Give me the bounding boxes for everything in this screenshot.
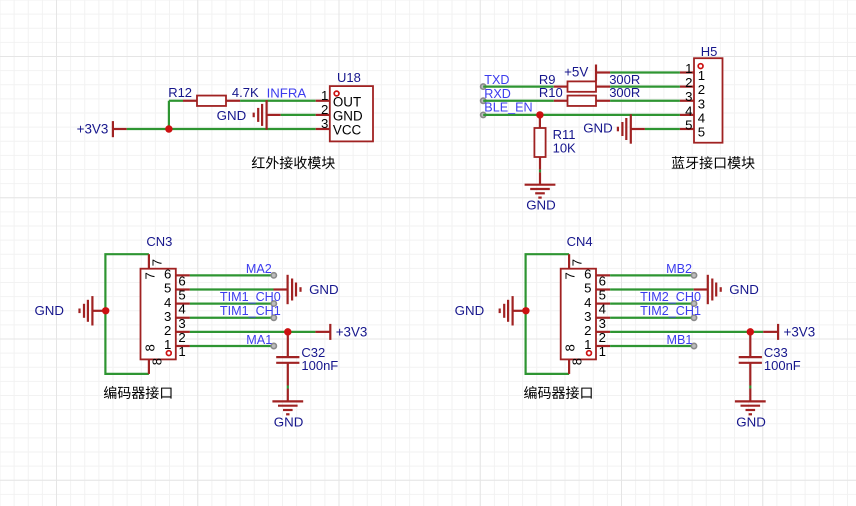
capacitor C33 — [739, 356, 762, 358]
open end TIM2_CH1 — [691, 315, 696, 320]
svg-text:1: 1 — [178, 344, 185, 359]
svg-text:MB1: MB1 — [667, 333, 693, 347]
open end MB2 — [691, 273, 696, 278]
svg-text:6: 6 — [584, 267, 591, 282]
svg-text:1: 1 — [584, 337, 591, 352]
svg-text:10K: 10K — [553, 141, 576, 156]
svg-text:2: 2 — [321, 102, 328, 117]
svg-text:8: 8 — [563, 344, 578, 351]
ground earth (C32) — [272, 400, 303, 402]
U18 pin 2 stub — [316, 114, 330, 116]
svg-text:8: 8 — [149, 358, 164, 365]
power flag +3V3 (CN3) — [315, 331, 329, 333]
svg-text:MA2: MA2 — [246, 262, 272, 276]
connector CN4 body — [561, 269, 596, 360]
open end MA2 — [271, 273, 276, 278]
svg-text:+3V3: +3V3 — [336, 325, 368, 340]
svg-text:R10: R10 — [539, 85, 563, 100]
svg-text:2: 2 — [698, 82, 705, 97]
wire GND bars to U18 GND — [281, 114, 316, 116]
svg-text:3: 3 — [321, 116, 328, 131]
svg-text:GND: GND — [729, 282, 759, 297]
svg-text:5: 5 — [164, 281, 171, 296]
svg-text:4.7K: 4.7K — [232, 85, 259, 100]
svg-text:7: 7 — [563, 272, 578, 279]
junction CN4 left GND — [522, 307, 529, 314]
wire CN4 pin6 — [610, 274, 694, 276]
svg-text:3: 3 — [599, 316, 606, 331]
svg-text:1: 1 — [321, 88, 328, 103]
svg-text:6: 6 — [164, 267, 171, 282]
svg-text:OUT: OUT — [333, 94, 361, 109]
wire R12 to U18 OUT — [240, 100, 316, 102]
ground earth (R11) — [525, 184, 556, 186]
wire CN4 pin7 to pin8 loop — [526, 254, 570, 374]
svg-text:2: 2 — [685, 75, 692, 90]
svg-text:CN3: CN3 — [146, 234, 172, 249]
open end TIM1_CH0 — [271, 301, 276, 306]
svg-text:2: 2 — [178, 330, 185, 345]
open end TIM1_CH1 — [271, 315, 276, 320]
svg-text:TIM2_CH0: TIM2_CH0 — [640, 290, 701, 304]
svg-text:MB2: MB2 — [666, 262, 692, 276]
junction CN4 pin2/cap — [747, 328, 754, 335]
svg-text:TXD: TXD — [484, 73, 509, 87]
svg-text:TIM2_CH1: TIM2_CH1 — [640, 304, 701, 318]
wire CN3 pin7 to pin8 loop — [105, 254, 148, 374]
wire CN4 pin4 — [610, 303, 694, 305]
wire GND bars to H5 pin5 — [645, 128, 680, 130]
open end TIM2_CH0 — [691, 301, 696, 306]
ground earth (C33) — [735, 400, 766, 402]
wire junction to C32 — [287, 332, 289, 357]
wire +3V3 to U18 VCC — [127, 128, 316, 130]
svg-text:GND: GND — [274, 415, 304, 430]
svg-text:TIM1_CH0: TIM1_CH0 — [220, 290, 281, 304]
wire R10 to H5 pin3 — [610, 100, 680, 102]
wire R11 to GND — [539, 170, 541, 173]
svg-text:H5: H5 — [701, 44, 718, 59]
wire junction to C33 — [749, 332, 751, 357]
title 红外接收模块 — [252, 156, 335, 169]
svg-text:GND: GND — [455, 303, 485, 318]
svg-text:5: 5 — [698, 125, 705, 140]
ground GND bars (IR) — [266, 100, 268, 129]
svg-text:GND: GND — [309, 282, 339, 297]
svg-text:4: 4 — [698, 111, 705, 126]
ground GND bars (CN3 left) — [91, 296, 93, 325]
svg-text:R12: R12 — [168, 85, 192, 100]
svg-text:100nF: 100nF — [301, 358, 338, 373]
svg-text:6: 6 — [599, 273, 606, 288]
svg-text:1: 1 — [685, 61, 692, 76]
svg-text:8: 8 — [142, 344, 157, 351]
wire CN4 pin2 to +3V3 — [610, 331, 763, 333]
svg-text:GND: GND — [736, 415, 766, 430]
wire CN3 pin3 — [190, 317, 274, 319]
wire RXD to R10 — [483, 100, 554, 102]
svg-text:5: 5 — [599, 288, 606, 303]
svg-text:3: 3 — [698, 96, 705, 111]
CN4 pin 8 stub — [568, 359, 570, 374]
svg-text:5: 5 — [178, 288, 185, 303]
ground GND bars (CN4 left) — [511, 296, 513, 325]
svg-text:3: 3 — [584, 309, 591, 324]
svg-text:4: 4 — [584, 295, 591, 310]
svg-text:2: 2 — [599, 330, 606, 345]
svg-text:300R: 300R — [609, 85, 640, 100]
wire R9 to H5 pin2 — [610, 85, 680, 87]
header H5 body — [694, 58, 723, 143]
svg-text:GND: GND — [583, 121, 613, 136]
BLE_EN open end — [481, 112, 486, 117]
wire junction to R12 — [168, 101, 170, 130]
resistor R9 — [554, 85, 568, 87]
svg-text:7: 7 — [142, 272, 157, 279]
ic U18 body — [330, 86, 373, 141]
junction CN3 pin2/cap — [284, 328, 291, 335]
svg-text:GND: GND — [34, 303, 64, 318]
U18 pin 3 stub — [316, 128, 330, 130]
svg-text:4: 4 — [178, 302, 185, 317]
svg-text:2: 2 — [584, 323, 591, 338]
junction +3V3/R12 — [165, 125, 172, 132]
RXD open end — [481, 98, 486, 103]
svg-text:6: 6 — [178, 273, 185, 288]
junction CN3 left GND — [102, 307, 109, 314]
wire TXD to R9 — [483, 85, 554, 87]
svg-text:3: 3 — [178, 316, 185, 331]
svg-text:INFRA: INFRA — [267, 85, 307, 100]
wire CN4 pin5 to GND — [610, 288, 694, 290]
U18 pin1 dot — [334, 91, 339, 96]
svg-text:5: 5 — [584, 281, 591, 296]
CN3 pin1 dot — [166, 351, 171, 356]
svg-text:4: 4 — [599, 302, 606, 317]
wire BLE_EN to H5 pin4 — [483, 114, 680, 116]
svg-text:VCC: VCC — [333, 123, 362, 138]
svg-text:+5V: +5V — [564, 65, 588, 80]
wire C32 to GND — [287, 363, 289, 386]
wire CN3 pin2 to +3V3 — [190, 331, 316, 333]
wire +5V to H5 pin1 — [610, 71, 680, 73]
svg-text:4: 4 — [685, 103, 692, 118]
svg-text:7: 7 — [570, 259, 585, 266]
H5 pin stubs — [680, 71, 694, 73]
svg-text:TIM1_CH1: TIM1_CH1 — [220, 304, 281, 318]
title 蓝牙接口模块 — [672, 156, 755, 169]
power flag +3V3 (CN4) — [763, 331, 777, 333]
svg-text:3: 3 — [685, 89, 692, 104]
wire CN4 pin1 — [610, 345, 694, 347]
svg-text:2: 2 — [164, 323, 171, 338]
svg-text:100nF: 100nF — [764, 358, 801, 373]
wire CN3 pin1 — [190, 345, 274, 347]
CN3 pin 8 stub — [148, 359, 150, 374]
svg-text:1: 1 — [698, 68, 705, 83]
svg-text:1: 1 — [599, 344, 606, 359]
U18 pin 1 stub — [316, 100, 330, 102]
CN4 pin stubs 1-6 — [596, 274, 610, 276]
svg-text:+3V3: +3V3 — [77, 122, 109, 137]
svg-text:4: 4 — [164, 295, 171, 310]
open end MA1 — [271, 343, 276, 348]
svg-text:GND: GND — [333, 109, 363, 124]
capacitor C32 — [276, 356, 299, 358]
connector CN3 body — [141, 269, 176, 360]
svg-text:CN4: CN4 — [567, 234, 593, 249]
svg-text:GND: GND — [217, 108, 247, 123]
junction BLE_EN/R11 — [536, 111, 543, 118]
svg-text:7: 7 — [149, 259, 164, 266]
title 编码器接口 (CN4) — [524, 386, 592, 399]
wire CN4 pin3 — [610, 317, 694, 319]
CN4 pin 7 stub — [568, 254, 570, 269]
svg-text:BLE_EN: BLE_EN — [484, 101, 532, 115]
svg-text:1: 1 — [164, 337, 171, 352]
svg-text:RXD: RXD — [484, 87, 511, 101]
resistor R11 — [539, 115, 541, 128]
ground GND bars (CN4 right) — [707, 275, 709, 304]
svg-text:3: 3 — [164, 309, 171, 324]
svg-text:+3V3: +3V3 — [784, 325, 816, 340]
wire CN3 pin5 to GND — [190, 288, 274, 290]
svg-text:U18: U18 — [337, 70, 361, 85]
CN3 pin 7 stub — [148, 254, 150, 269]
title 编码器接口 (CN3) — [104, 386, 172, 399]
CN3 pin stubs 1-6 — [176, 274, 190, 276]
H5 pin1 dot — [698, 64, 703, 69]
wire CN3 pin4 — [190, 303, 274, 305]
ground GND bars (H5) — [630, 114, 632, 143]
open end MB1 — [691, 343, 696, 348]
TXD open end — [481, 84, 486, 89]
resistor R10 — [554, 100, 568, 102]
wire CN3 pin6 — [190, 274, 274, 276]
svg-text:GND: GND — [526, 198, 556, 213]
svg-text:8: 8 — [570, 358, 585, 365]
wire C33 to GND — [749, 363, 751, 386]
resistor R12 — [183, 100, 197, 102]
svg-text:MA1: MA1 — [246, 333, 272, 347]
svg-text:5: 5 — [685, 117, 692, 132]
CN4 pin1 dot — [587, 351, 592, 356]
ground GND bars (CN3 right) — [287, 275, 289, 304]
power flag +3V3 (IR) — [112, 121, 114, 137]
